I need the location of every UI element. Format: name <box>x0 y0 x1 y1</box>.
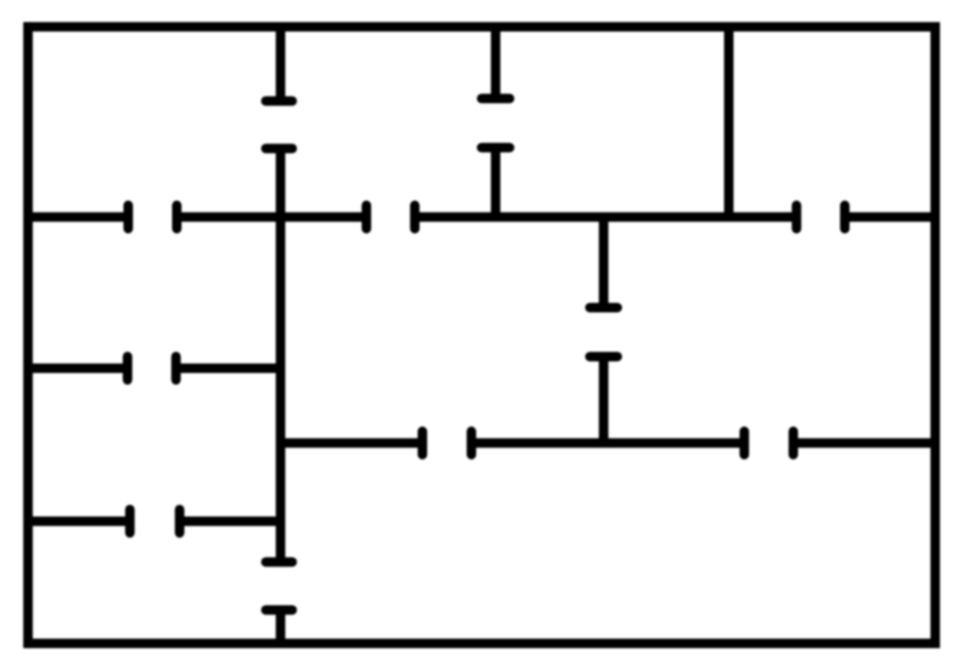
wire: row C from C10 to main vertical bus <box>180 516 285 526</box>
wire: C2 bottom plate down to row A bus <box>491 148 501 221</box>
wire: middle row from C9 to right border <box>793 438 938 448</box>
wire: row B from C7 to main vertical bus <box>176 363 285 373</box>
wire: top border down to row A bus (x=728.8) <box>724 24 734 221</box>
wire: top border to C2 top plate (x=495.6) <box>491 24 501 99</box>
wire: row A from left border to C3 <box>25 212 128 222</box>
wire: C11 bottom plate to bottom border <box>276 610 286 646</box>
capacitor C11 <box>266 562 292 610</box>
wire: top border to C1 top plate (x=280.5) <box>276 24 286 101</box>
wire: middle row bus between C8 and C9 <box>471 438 744 448</box>
wire: row B from left border to C7 <box>25 363 128 373</box>
wire: row A bus between C4 and C5 <box>415 212 797 222</box>
wire: row A from C5 to right border <box>845 212 938 222</box>
capacitor C4 <box>366 205 414 228</box>
wire: row A between C3 and C4 <box>177 212 367 222</box>
capacitor C10 <box>130 510 180 533</box>
capacitor C9 <box>744 431 793 454</box>
wire: C6 bottom plate down to middle row bus <box>599 357 609 447</box>
wire: C1 bottom plate down to C11 top plate (main vertical bus x=280.5) <box>276 149 286 563</box>
capacitor C5 <box>797 205 845 228</box>
capacitor C3 <box>128 205 177 228</box>
capacitor C7 <box>128 357 177 380</box>
capacitor C8 <box>422 431 471 454</box>
wire: row A bus down to C6 top plate (x=603.6) <box>599 217 609 308</box>
wire: middle row from main vertical bus to C8 <box>281 438 423 448</box>
capacitor C2 <box>482 99 510 148</box>
capacitor C1 <box>266 101 292 149</box>
wire: row C from left border to C10 <box>25 516 130 526</box>
capacitor C6 <box>590 308 617 357</box>
